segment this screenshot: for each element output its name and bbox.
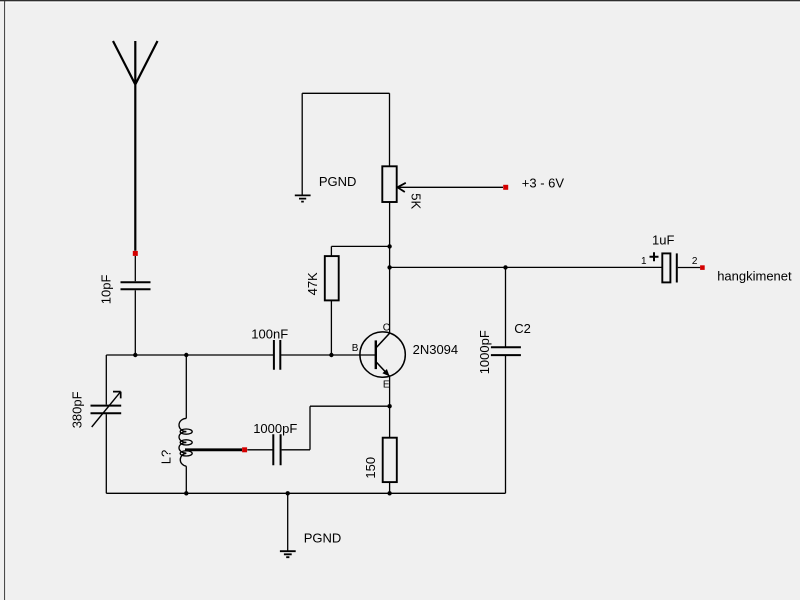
svg-text:380pF: 380pF	[70, 391, 85, 428]
svg-text:B: B	[352, 343, 359, 354]
svg-text:1: 1	[641, 256, 647, 267]
svg-text:L?: L?	[159, 450, 174, 464]
svg-text:1uF: 1uF	[652, 233, 674, 248]
svg-text:C: C	[383, 322, 390, 333]
svg-text:10pF: 10pF	[99, 275, 114, 305]
svg-text:PGND: PGND	[319, 174, 357, 189]
svg-text:hangkimenet: hangkimenet	[717, 268, 792, 283]
svg-text:C2: C2	[514, 321, 531, 336]
svg-text:E: E	[383, 380, 390, 391]
svg-text:1000pF: 1000pF	[477, 330, 492, 374]
svg-text:150: 150	[363, 457, 378, 479]
svg-text:PGND: PGND	[304, 530, 342, 545]
svg-text:100nF: 100nF	[251, 327, 288, 342]
svg-text:+3 - 6V: +3 - 6V	[522, 175, 565, 190]
svg-text:2N3094: 2N3094	[413, 342, 459, 357]
svg-text:5K: 5K	[409, 193, 424, 209]
svg-text:2: 2	[692, 256, 698, 267]
svg-text:47K: 47K	[305, 272, 320, 295]
svg-text:1000pF: 1000pF	[253, 421, 297, 436]
